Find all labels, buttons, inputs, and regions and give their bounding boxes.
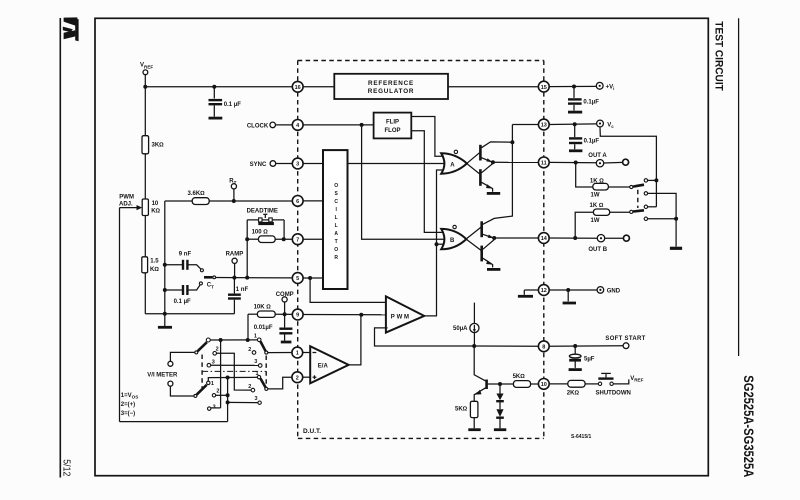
terminal VREF bbox=[143, 70, 148, 75]
terminal meter plus bbox=[168, 361, 173, 366]
flip flop box bbox=[303, 113, 411, 139]
pin 1 bbox=[292, 347, 303, 358]
contact 3 top-right bbox=[258, 364, 262, 368]
svg-text:C: C bbox=[334, 199, 338, 205]
svg-text:1K Ω: 1K Ω bbox=[590, 203, 604, 209]
resistor 10K (COMP) bbox=[248, 305, 293, 318]
switch pole B load bbox=[630, 210, 633, 213]
svg-text:V/I METER: V/I METER bbox=[147, 373, 178, 379]
node pin7 junction bbox=[282, 237, 286, 241]
wire pin12 left ground bbox=[524, 289, 539, 291]
switch pole top-left bbox=[195, 351, 198, 354]
transistor QA1 base lead bbox=[467, 153, 480, 164]
pin 8 bbox=[538, 341, 549, 352]
svg-text:0.01µF: 0.01µF bbox=[254, 325, 273, 331]
switch wiper bottom-right bbox=[260, 378, 266, 388]
resistor 5K (emitter) bbox=[455, 401, 478, 428]
svg-text:7: 7 bbox=[296, 237, 299, 243]
contact 2 bottom-left bbox=[212, 394, 215, 397]
ground QA2 emitter bbox=[487, 192, 500, 195]
ground pin12 bbox=[567, 290, 569, 301]
terminal OUT A bbox=[596, 160, 603, 167]
pin 10 bbox=[538, 379, 549, 390]
node EA output junction bbox=[359, 313, 363, 317]
node QB emitter junction bbox=[492, 236, 496, 240]
svg-text:14: 14 bbox=[541, 236, 548, 242]
svg-text:CLOCK: CLOCK bbox=[247, 123, 269, 129]
svg-text:2: 2 bbox=[248, 384, 251, 390]
wire base to pin10 bbox=[488, 383, 514, 385]
wire blanking (pin4 to gate B) bbox=[362, 125, 445, 239]
bubble gate B bbox=[453, 225, 456, 228]
wire pin14 OUT B bbox=[549, 237, 597, 239]
svg-text:3: 3 bbox=[213, 404, 216, 410]
svg-text:10K Ω: 10K Ω bbox=[254, 305, 272, 311]
node rail junction bbox=[163, 312, 167, 316]
svg-text:2KΩ: 2KΩ bbox=[567, 391, 580, 397]
capacitor 0.1uF (Vc) bbox=[569, 124, 599, 151]
svg-text:O: O bbox=[334, 247, 338, 253]
svg-text:1: 1 bbox=[256, 371, 259, 377]
svg-text:5KΩ: 5KΩ bbox=[455, 406, 468, 412]
pin 9 bbox=[292, 309, 303, 320]
svg-text:1: 1 bbox=[211, 381, 214, 387]
wire c2 top-left to c2 bottom-right bbox=[217, 353, 252, 390]
svg-text:+Vi: +Vi bbox=[606, 84, 615, 91]
node 9nF tap bbox=[163, 263, 167, 267]
ground QB2 emitter bbox=[487, 268, 500, 271]
svg-text:OUT A: OUT A bbox=[588, 153, 607, 159]
wire PWM soft-start tie bbox=[375, 328, 475, 346]
contact 2 top-left bbox=[213, 352, 217, 356]
wire pin8 internal bbox=[474, 345, 539, 347]
wire pin7 to oscillator bbox=[303, 238, 323, 240]
wire pin13 to Vc bbox=[549, 123, 596, 126]
svg-text:3: 3 bbox=[254, 359, 257, 365]
svg-text:CT: CT bbox=[207, 283, 214, 290]
coupling dash top-left bbox=[201, 355, 203, 390]
diode D2 bbox=[496, 401, 504, 428]
svg-text:2: 2 bbox=[248, 347, 251, 353]
svg-text:3KΩ: 3KΩ bbox=[152, 142, 165, 148]
capacitor 0.1uF (CT) bbox=[165, 282, 203, 305]
wire VREF to pin16 bbox=[145, 86, 292, 88]
svg-text:O: O bbox=[334, 183, 338, 189]
or-gate B bbox=[441, 229, 466, 249]
node junction cap tap bbox=[212, 85, 216, 89]
reference regulator box U-REF bbox=[303, 74, 538, 99]
wire pin9 to PWM bbox=[304, 314, 386, 316]
transistor QB2 base lead bbox=[466, 239, 481, 250]
svg-text:12: 12 bbox=[541, 288, 547, 294]
svg-text:OUT B: OUT B bbox=[588, 247, 607, 253]
wire FF Qbar to gate B bbox=[411, 131, 443, 233]
transistor Q shutdown bbox=[474, 346, 486, 401]
svg-text:E/A: E/A bbox=[318, 364, 329, 370]
terminal OUT B bbox=[597, 235, 604, 242]
current source 50uA bbox=[453, 303, 479, 346]
wire c2 to ground rail bbox=[648, 193, 677, 246]
pin 15 bbox=[538, 81, 549, 92]
pin 16 bbox=[292, 81, 303, 92]
wire pin8 soft start bbox=[549, 345, 623, 348]
page left rule bbox=[59, 18, 61, 478]
wire PWM output bbox=[424, 170, 443, 316]
svg-text:FLOP: FLOP bbox=[385, 128, 401, 134]
svg-text:SOFT START: SOFT START bbox=[605, 336, 645, 342]
ST logo bbox=[63, 17, 79, 41]
bubble gate A bbox=[454, 150, 457, 153]
wire bottom rail bbox=[145, 313, 234, 315]
resistor 5K (pin10) bbox=[513, 374, 539, 388]
pin 7 bbox=[292, 234, 303, 245]
wire pin15 to +Vi bbox=[549, 85, 596, 87]
terminal Vc bbox=[597, 120, 604, 127]
ground diodes bbox=[494, 428, 506, 431]
svg-text:VREF: VREF bbox=[140, 63, 153, 70]
pushbutton SHUTDOWN bbox=[596, 373, 631, 396]
wire pin10 bbox=[549, 383, 568, 385]
svg-text:0.1µF: 0.1µF bbox=[584, 139, 600, 145]
svg-text:TEST CIRCUIT: TEST CIRCUIT bbox=[712, 21, 724, 91]
terminal meter minus bbox=[168, 381, 173, 386]
svg-text:SG2525A-SG3525A: SG2525A-SG3525A bbox=[741, 375, 756, 477]
wire contact1 bus top bbox=[210, 339, 257, 341]
svg-text:REFERENCE: REFERENCE bbox=[368, 80, 414, 87]
wire c1 bottom bus bbox=[208, 377, 257, 381]
contact 2 top-right bbox=[252, 351, 256, 355]
svg-text:1.5: 1.5 bbox=[150, 259, 159, 265]
svg-text:16: 16 bbox=[295, 85, 301, 91]
wire CT bus vertical bbox=[164, 201, 166, 314]
wire pin5 into oscillator bbox=[303, 277, 323, 279]
oscillator box bbox=[323, 150, 348, 289]
switch wiper bottom-left bbox=[197, 385, 207, 395]
wire pin11 OUT A bbox=[549, 161, 596, 163]
transistor QB2 bbox=[482, 240, 495, 268]
node base junction bbox=[498, 382, 502, 386]
svg-text:1 nF: 1 nF bbox=[236, 287, 249, 293]
transistor QA2 bbox=[480, 163, 493, 191]
wire shutdown to VREF bbox=[613, 379, 629, 384]
svg-text:SYNC: SYNC bbox=[250, 162, 267, 168]
node soft-start junction bbox=[472, 344, 476, 348]
transistor QB1 base lead bbox=[466, 227, 481, 239]
switch wiper top-left bbox=[198, 342, 207, 351]
svg-text:3.6KΩ: 3.6KΩ bbox=[188, 191, 206, 197]
svg-text:RAMP: RAMP bbox=[226, 251, 244, 257]
diode D1 bbox=[496, 384, 504, 401]
capacitor 9nF bbox=[165, 252, 204, 272]
pin 12 bbox=[538, 285, 549, 296]
svg-text:6: 6 bbox=[296, 199, 299, 205]
node 0.1uF tap bbox=[163, 288, 167, 292]
coupling dash-dot horizontal bbox=[202, 370, 266, 372]
switch pole bottom-right bbox=[265, 387, 268, 390]
pin 5 bbox=[292, 273, 303, 284]
svg-text:2: 2 bbox=[216, 389, 219, 395]
svg-text:13: 13 bbox=[541, 123, 547, 129]
svg-text:50µA: 50µA bbox=[453, 326, 468, 332]
node QA emitter junction bbox=[491, 160, 495, 164]
svg-text:3=(−): 3=(−) bbox=[121, 411, 135, 417]
contact 3 bottom-left stub bbox=[211, 407, 221, 409]
transistor QA2 base lead bbox=[467, 164, 480, 174]
switch wiper B load bbox=[633, 210, 644, 211]
svg-text:L: L bbox=[335, 223, 338, 229]
wire FF Q to gate A bbox=[411, 117, 443, 157]
wire Vc rail bbox=[483, 125, 513, 225]
page right rule bbox=[738, 18, 740, 356]
svg-text:0.1µF: 0.1µF bbox=[583, 99, 599, 105]
terminal RT bbox=[231, 184, 236, 189]
coupling dash right decks bbox=[265, 356, 267, 387]
terminal GND bbox=[597, 287, 604, 294]
svg-text:5µF: 5µF bbox=[584, 357, 595, 363]
wire pin6 to oscillator bbox=[303, 200, 323, 202]
ground load switch bbox=[670, 247, 682, 250]
terminal SOFT START bbox=[623, 343, 629, 349]
resistor 100ohm bbox=[247, 230, 292, 243]
svg-text:Vc: Vc bbox=[607, 122, 614, 129]
svg-text:5KΩ: 5KΩ bbox=[513, 374, 526, 380]
jack OUT B bbox=[623, 235, 629, 241]
svg-text:R: R bbox=[334, 255, 338, 261]
capacitor 5uF bbox=[569, 346, 595, 370]
svg-text:0.1 µF: 0.1 µF bbox=[174, 299, 191, 305]
svg-text:10: 10 bbox=[152, 201, 159, 207]
node clock junction bbox=[360, 123, 364, 127]
pin 13 bbox=[538, 119, 549, 130]
wire deadtime left leg bbox=[246, 220, 248, 278]
svg-text:9: 9 bbox=[296, 313, 299, 319]
wire c3 top row bbox=[211, 364, 259, 366]
wire meter minus to pole bbox=[170, 386, 194, 396]
wire pole to pin2 bbox=[268, 377, 293, 389]
capacitor 0.1uF (VREF) bbox=[209, 87, 242, 118]
pin 6 bbox=[292, 196, 303, 207]
svg-text:11: 11 bbox=[541, 161, 547, 167]
svg-text:A: A bbox=[334, 231, 338, 237]
svg-text:2: 2 bbox=[216, 346, 219, 352]
resistor 1.5K bbox=[142, 257, 160, 314]
svg-text:T: T bbox=[335, 239, 338, 245]
svg-text:FLIP: FLIP bbox=[386, 120, 399, 126]
load switch contacts bbox=[644, 179, 647, 182]
wire oscillator output to gate A bbox=[348, 163, 446, 165]
DUT dashed boundary bbox=[298, 61, 544, 439]
transistor QA1 bbox=[480, 142, 511, 162]
svg-text:3: 3 bbox=[255, 396, 258, 402]
wire 10K to meter bus bbox=[247, 314, 249, 340]
transistor QB1 bbox=[482, 221, 494, 238]
pin 14 bbox=[538, 233, 549, 244]
pin 11 bbox=[538, 157, 549, 168]
resistor 3K bbox=[142, 87, 164, 199]
contact 3 bottom-left bbox=[208, 407, 211, 410]
wire out B to pin14 bbox=[494, 237, 538, 239]
contact 1 bottom-left bbox=[207, 381, 210, 384]
svg-text:GND: GND bbox=[607, 289, 621, 295]
capacitor 0.01uF bbox=[254, 314, 293, 342]
node RAMP junction bbox=[232, 276, 236, 280]
svg-text:1W: 1W bbox=[591, 218, 600, 224]
wire PWM ADJ wiper down bbox=[119, 208, 121, 422]
svg-text:VREF: VREF bbox=[630, 376, 643, 383]
wire net M2 vertical bbox=[227, 378, 229, 422]
svg-text:DEADTIME: DEADTIME bbox=[247, 209, 278, 215]
node RT junction bbox=[232, 199, 236, 203]
svg-text:D.U.T.: D.U.T. bbox=[303, 428, 321, 435]
or-gate A bbox=[441, 153, 467, 173]
switch pole bottom-left bbox=[194, 394, 197, 397]
contact 3 bottom-right bbox=[258, 401, 261, 404]
wire pole to pin1 bbox=[268, 352, 293, 354]
svg-text:10: 10 bbox=[541, 382, 547, 388]
wire VREF stem bbox=[144, 75, 146, 87]
svg-text:B: B bbox=[450, 238, 455, 244]
jack OUT A bbox=[623, 159, 629, 165]
pin 4 bbox=[292, 120, 303, 131]
error amplifier E/A bbox=[303, 346, 349, 383]
wire Vc to load switch bbox=[600, 127, 656, 207]
wire net M1 vertical bbox=[220, 340, 222, 408]
switch pole top-right bbox=[265, 351, 268, 354]
switch pole A load bbox=[630, 185, 633, 188]
svg-text:PWM: PWM bbox=[391, 315, 411, 321]
svg-text:A: A bbox=[450, 163, 455, 169]
node QA1 collector junction bbox=[510, 140, 514, 144]
ground rail bbox=[164, 314, 166, 326]
svg-text:ADJ.: ADJ. bbox=[119, 202, 133, 208]
svg-text:2: 2 bbox=[296, 375, 299, 381]
capacitor 1nF bbox=[228, 278, 248, 314]
resistor 1K 1W (B) bbox=[575, 203, 630, 238]
svg-text:KΩ: KΩ bbox=[150, 267, 159, 273]
node PWM to gateB branch bbox=[435, 242, 439, 246]
wire pin12 to GND bbox=[550, 289, 597, 291]
svg-text:KΩ: KΩ bbox=[151, 209, 160, 215]
pin 3 bbox=[292, 158, 303, 169]
svg-text:2=(+): 2=(+) bbox=[121, 402, 135, 408]
resistor 1K 1W (A) bbox=[576, 163, 630, 199]
PWM comparator bbox=[386, 296, 424, 332]
pin 2 bbox=[292, 372, 303, 383]
svg-text:PWM: PWM bbox=[119, 195, 134, 201]
svg-text:5/12: 5/12 bbox=[61, 459, 72, 476]
wire c3 stub bbox=[648, 206, 657, 208]
svg-text:REGULATOR: REGULATOR bbox=[368, 88, 415, 95]
node ramp junction bbox=[308, 276, 312, 280]
node COMP junction bbox=[283, 312, 287, 316]
wire CT to pin5 bbox=[216, 277, 293, 279]
svg-text:1K Ω: 1K Ω bbox=[590, 179, 604, 185]
ground 5K bbox=[468, 428, 480, 431]
svg-text:3: 3 bbox=[296, 162, 299, 168]
capacitor 0.1uF (+Vi) bbox=[568, 87, 599, 113]
svg-text:SHUTDOWN: SHUTDOWN bbox=[596, 390, 631, 396]
switch CT selector bbox=[204, 276, 216, 289]
svg-text:RT: RT bbox=[229, 178, 236, 185]
contact 1 top-left bbox=[206, 338, 210, 342]
contact 3 top-left bbox=[207, 363, 211, 367]
svg-text:1: 1 bbox=[296, 351, 299, 357]
wire pin13 stub bbox=[512, 124, 538, 126]
switch wiper A load bbox=[633, 185, 644, 187]
contact 1 bottom-right bbox=[257, 375, 260, 378]
wire out A to pin11 bbox=[493, 161, 538, 163]
svg-text:5: 5 bbox=[296, 276, 299, 282]
wire to c3 bottom-right bbox=[228, 401, 258, 403]
svg-text:S-6415/1: S-6415/1 bbox=[571, 434, 592, 440]
node junction VREF bbox=[143, 85, 147, 89]
potentiometer 10K PWM ADJ bbox=[119, 195, 161, 257]
svg-text:8: 8 bbox=[542, 345, 545, 351]
wire c4 stub bbox=[648, 218, 677, 220]
contact 2 bottom-right bbox=[251, 388, 255, 392]
coupling dash load switch bbox=[637, 190, 639, 208]
resistor 2K bbox=[567, 380, 598, 396]
terminal +Vi bbox=[596, 82, 603, 89]
wire c2 bottom-left stub bbox=[216, 394, 228, 396]
svg-text:15: 15 bbox=[541, 85, 547, 91]
svg-text:1: 1 bbox=[254, 334, 257, 340]
resistor 3.6K bbox=[165, 191, 293, 204]
switch wiper top-right bbox=[260, 341, 266, 351]
svg-text:L: L bbox=[335, 215, 338, 221]
wire pin3 to oscillator bbox=[303, 163, 323, 165]
svg-text:1W: 1W bbox=[591, 193, 600, 199]
svg-text:9 nF: 9 nF bbox=[179, 252, 192, 258]
svg-text:100 Ω: 100 Ω bbox=[252, 230, 269, 236]
trimmer DEADTIME bbox=[247, 209, 285, 224]
wire EA output up bbox=[349, 315, 361, 365]
wire deadtime right leg bbox=[283, 220, 285, 239]
contact 1 top-right bbox=[257, 338, 261, 342]
wire ramp to PWM input bbox=[310, 278, 386, 302]
svg-text:0.1 µF: 0.1 µF bbox=[224, 102, 241, 108]
wire meter plus to pole bbox=[170, 352, 194, 361]
wire c1 stub bbox=[648, 179, 657, 181]
wire bottom run to switch bbox=[120, 421, 228, 423]
svg-text:1=VOS: 1=VOS bbox=[121, 393, 138, 400]
page frame bbox=[95, 18, 708, 475]
